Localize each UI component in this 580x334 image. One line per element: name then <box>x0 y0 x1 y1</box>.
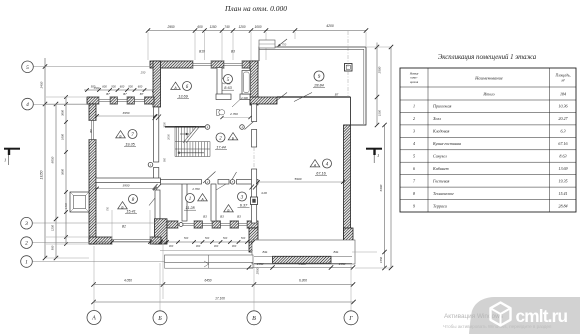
room 5 sanuzel label <box>224 75 233 84</box>
svg-text:500: 500 <box>128 85 133 89</box>
svg-text:2: 2 <box>413 116 415 121</box>
svg-text:4200: 4200 <box>326 24 334 28</box>
svg-text:13150: 13150 <box>40 170 44 179</box>
svg-text:67.16: 67.16 <box>558 141 568 146</box>
svg-text:13.69: 13.69 <box>558 166 567 171</box>
svg-text:1500: 1500 <box>94 86 100 90</box>
svg-text:500: 500 <box>205 236 210 240</box>
terrace door leaf <box>276 93 287 102</box>
top dimension chain <box>148 30 366 32</box>
svg-text:1600: 1600 <box>61 134 65 140</box>
svg-text:600: 600 <box>138 85 143 89</box>
window B2 <box>112 237 150 244</box>
svg-text:2: 2 <box>25 241 28 247</box>
toilet in sanuzel <box>227 78 230 85</box>
svg-text:В: В <box>252 316 256 322</box>
partition: hall west double line <box>154 107 159 162</box>
window B10 in north wall <box>193 61 211 68</box>
svg-text:4: 4 <box>26 101 29 108</box>
window B3 in north wall <box>224 61 242 68</box>
svg-text:20.27: 20.27 <box>558 116 568 121</box>
svg-text:500: 500 <box>111 85 116 89</box>
porch steps <box>165 255 254 262</box>
bay window sill wall <box>273 256 332 263</box>
wall: east of sanuzel (main block east) <box>250 61 258 105</box>
hall internal dim <box>222 117 250 119</box>
svg-text:67.16: 67.16 <box>316 172 326 176</box>
svg-text:1500: 1500 <box>378 109 382 116</box>
wall: room4 east <box>344 125 351 252</box>
door spacing chain <box>95 241 253 243</box>
right chain terrace <box>376 43 378 126</box>
svg-text:1: 1 <box>377 153 379 158</box>
svg-text:2550: 2550 <box>256 267 260 275</box>
svg-text:В3: В3 <box>203 215 207 219</box>
svg-text:щения: щения <box>410 80 419 84</box>
wall: room4 north <box>250 97 277 104</box>
wall: west outer <box>89 104 96 121</box>
partition: room1 / room3 <box>211 184 216 221</box>
room 6 kabinet label <box>171 82 181 89</box>
svg-text:3950: 3950 <box>123 183 130 187</box>
bay window outline <box>252 240 355 264</box>
wall: left wing north <box>87 97 99 104</box>
svg-text:2500: 2500 <box>378 66 382 74</box>
svg-text:1000: 1000 <box>254 25 261 29</box>
svg-text:Экспликация помещений 1 этажа: Экспликация помещений 1 этажа <box>438 54 537 61</box>
terrace sliding door leaf <box>294 93 312 102</box>
axis circle B <box>153 311 167 325</box>
section mark 1 right <box>366 148 382 150</box>
svg-text:Холл: Холл <box>432 116 441 121</box>
door leaves on hall partition <box>203 172 216 184</box>
axis circle 5 <box>22 61 34 73</box>
partition segment below door <box>154 168 159 183</box>
toilet near stairs <box>217 110 220 116</box>
right chain room4 <box>384 125 386 268</box>
axis circle 1 <box>21 256 33 268</box>
svg-text:Итого: Итого <box>482 92 494 97</box>
column axis dash line <box>347 31 349 97</box>
terrace column <box>345 64 353 72</box>
svg-text:6.3: 6.3 <box>560 129 565 134</box>
svg-text:1: 1 <box>4 158 6 163</box>
svg-text:3: 3 <box>24 221 28 227</box>
svg-text:3: 3 <box>413 129 415 134</box>
partition: room6 / sanuzel5 <box>217 68 222 96</box>
svg-text:1: 1 <box>189 197 192 202</box>
svg-text:Г: Г <box>348 316 353 322</box>
svg-text:250: 250 <box>140 71 146 75</box>
svg-text:В7: В7 <box>123 92 127 96</box>
svg-text:1150: 1150 <box>210 25 217 29</box>
axis circle G <box>344 311 358 325</box>
svg-text:900: 900 <box>164 157 167 162</box>
svg-text:В11: В11 <box>262 250 267 254</box>
svg-text:17.44: 17.44 <box>216 146 226 150</box>
break marks lower <box>153 184 158 190</box>
vent duct box <box>251 197 258 205</box>
svg-text:1200: 1200 <box>238 25 245 29</box>
svg-text:1550: 1550 <box>339 262 346 266</box>
svg-text:Кладовая: Кладовая <box>432 129 450 134</box>
svg-text:В7: В7 <box>140 92 144 96</box>
svg-text:900: 900 <box>196 244 201 248</box>
door leaf hall-kitchen <box>245 122 254 130</box>
svg-text:1550: 1550 <box>257 262 264 266</box>
svg-text:А: А <box>91 316 96 322</box>
terrace south edge <box>277 96 351 98</box>
svg-text:19.35: 19.35 <box>125 143 135 147</box>
svg-text:900: 900 <box>232 244 237 248</box>
svg-text:4: 4 <box>413 141 415 146</box>
axis circle 4 <box>22 98 34 110</box>
wall break marks <box>250 185 255 190</box>
door leaf room3 <box>216 184 226 190</box>
room4 internal dim <box>258 181 343 183</box>
svg-text:8: 8 <box>413 191 415 196</box>
bottom extension lines <box>93 246 95 311</box>
svg-text:6400: 6400 <box>379 184 383 191</box>
svg-text:Кухня-гостиная: Кухня-гостиная <box>432 141 461 146</box>
partition: hall / hallway <box>161 180 202 185</box>
svg-text:600: 600 <box>120 85 125 89</box>
room 4 kitchen-living label <box>310 160 320 167</box>
svg-text:Санузел: Санузел <box>433 154 447 159</box>
svg-text:19.35: 19.35 <box>558 178 567 183</box>
svg-text:План на отм. 0.000: План на отм. 0.000 <box>224 4 287 13</box>
svg-text:500: 500 <box>223 236 228 240</box>
svg-text:4.00: 4.00 <box>261 191 267 195</box>
partition: hall east <box>252 104 257 122</box>
room 7 gostevaya label <box>116 131 126 138</box>
door bubble hall <box>205 125 210 130</box>
svg-text:Кабинет: Кабинет <box>432 166 449 171</box>
room 2 hall label <box>216 133 225 142</box>
svg-text:2.300: 2.300 <box>240 96 248 100</box>
svg-text:В8: В8 <box>89 129 93 133</box>
left wing window dimension row <box>84 89 154 91</box>
stair diagonal break <box>183 127 197 144</box>
bay window chain <box>249 267 353 269</box>
svg-text:Наименование: Наименование <box>474 76 503 81</box>
svg-text:600: 600 <box>197 25 203 29</box>
svg-text:1550: 1550 <box>379 257 383 263</box>
svg-text:В10: В10 <box>199 50 205 54</box>
entrance column <box>179 223 183 227</box>
svg-text:4.050: 4.050 <box>124 279 132 283</box>
axis circle V <box>247 311 261 325</box>
svg-text:В2: В2 <box>122 225 126 229</box>
room 1 prihozhaya label <box>186 194 195 203</box>
fireplace niche <box>70 192 89 212</box>
svg-text:17.100: 17.100 <box>215 296 225 300</box>
svg-text:1: 1 <box>25 259 28 265</box>
svg-text:4.000: 4.000 <box>298 262 306 266</box>
svg-text:750: 750 <box>282 43 287 47</box>
door leaf into room8 <box>149 198 155 206</box>
svg-text:15.41: 15.41 <box>558 191 567 196</box>
partition: room8 / room1 <box>182 183 187 222</box>
svg-text:В7: В7 <box>106 92 110 96</box>
cmlt cube logo <box>491 303 511 326</box>
windows B7 in left wing north wall <box>99 97 110 104</box>
axis circle A <box>87 311 101 325</box>
svg-text:6.300: 6.300 <box>299 279 307 283</box>
svg-text:В3: В3 <box>231 50 235 54</box>
svg-text:2.700: 2.700 <box>229 112 238 116</box>
svg-text:28.84: 28.84 <box>313 84 324 88</box>
door bubble 3 <box>230 180 235 185</box>
terrace inner edge lines <box>363 49 365 124</box>
svg-text:Б: Б <box>157 316 162 322</box>
terrace outline <box>259 47 366 125</box>
wall: main block north <box>150 61 193 68</box>
svg-text:5600: 5600 <box>61 169 65 175</box>
room 3 kladovaya label <box>238 192 247 201</box>
chimney platform <box>259 40 275 48</box>
left overall chain <box>44 58 46 258</box>
svg-text:950: 950 <box>51 245 55 250</box>
svg-text:5900: 5900 <box>295 177 302 181</box>
svg-text:9: 9 <box>413 203 415 208</box>
svg-text:600: 600 <box>102 85 107 89</box>
door bubble 1 <box>148 162 153 167</box>
svg-text:1250: 1250 <box>51 225 55 231</box>
svg-text:184: 184 <box>560 92 566 97</box>
window B8 in west wall <box>89 121 96 140</box>
svg-text:Терраса: Терраса <box>433 203 447 208</box>
overall chain <box>94 301 354 303</box>
staircase <box>175 127 210 157</box>
right overall chain <box>390 47 392 268</box>
top extension lines <box>147 32 149 60</box>
axis circle 2 <box>21 237 33 249</box>
svg-text:Прихожая: Прихожая <box>432 104 452 109</box>
svg-text:2000: 2000 <box>167 134 171 141</box>
svg-text:2.700: 2.700 <box>191 187 200 191</box>
cmlt banner <box>469 297 580 334</box>
svg-text:2950: 2950 <box>166 25 174 29</box>
left chain 2 <box>55 104 57 258</box>
svg-text:3950: 3950 <box>123 111 130 115</box>
svg-text:5: 5 <box>413 154 415 159</box>
svg-text:6.37: 6.37 <box>240 204 248 208</box>
svg-text:500: 500 <box>241 236 246 240</box>
right extension lines <box>352 251 377 253</box>
wall: room4 south piers <box>249 228 258 252</box>
svg-text:1: 1 <box>413 104 415 109</box>
room4 northeast cap line <box>344 124 367 126</box>
break marks on hall west partition <box>153 115 158 121</box>
corner wall block <box>155 219 168 244</box>
room 9 terrace label <box>314 71 324 81</box>
svg-text:500: 500 <box>184 236 189 240</box>
svg-text:2450: 2450 <box>40 81 44 89</box>
svg-text:750: 750 <box>107 206 110 211</box>
svg-text:Техническое: Техническое <box>433 191 454 196</box>
axis circle 3 <box>21 217 33 229</box>
svg-text:3000: 3000 <box>164 122 167 128</box>
svg-text:Активация Windows: Активация Windows <box>444 313 503 320</box>
svg-text:740: 740 <box>224 25 230 29</box>
wall: left wing south <box>89 237 112 244</box>
svg-text:8050: 8050 <box>51 156 55 163</box>
svg-text:В3: В3 <box>237 215 241 219</box>
svg-text:8.63: 8.63 <box>224 86 232 90</box>
svg-text:Гостевая: Гостевая <box>432 178 450 183</box>
partition: sanuzel5 south <box>216 94 231 100</box>
room 8 tech label <box>129 195 138 204</box>
svg-text:В11: В11 <box>333 250 338 254</box>
svg-text:28.84: 28.84 <box>558 203 567 208</box>
svg-text:В7: В7 <box>335 92 339 96</box>
svg-text:900: 900 <box>214 244 219 248</box>
svg-text:6450: 6450 <box>204 279 211 283</box>
lower chain 2 <box>94 284 354 286</box>
room7 internal dim <box>97 115 155 117</box>
svg-text:15.41: 15.41 <box>126 210 136 214</box>
svg-text:3600: 3600 <box>61 110 65 116</box>
explication table frame <box>400 68 576 212</box>
door bubble 2 <box>205 180 210 185</box>
svg-text:cmlt.ru: cmlt.ru <box>516 306 568 326</box>
svg-text:В3: В3 <box>220 215 224 219</box>
stair arrow <box>178 152 204 154</box>
svg-text:11.28: 11.28 <box>185 206 195 210</box>
svg-text:13.69: 13.69 <box>178 95 188 99</box>
wall: west band of main block (hatched top) <box>153 61 161 107</box>
svg-text:5: 5 <box>26 65 29 71</box>
stair top landing edge <box>165 126 205 128</box>
door bubble 4 <box>240 125 245 130</box>
room8 internal dim <box>97 188 155 190</box>
room4 northeast corner line <box>350 97 352 125</box>
platform edge line <box>160 249 253 251</box>
section mark 1 left <box>4 148 20 150</box>
left extension lines <box>46 96 87 98</box>
window B2 extension lines <box>111 210 113 239</box>
partition: room7 / room8 <box>96 178 161 183</box>
bath tub <box>242 71 251 95</box>
svg-text:8.63: 8.63 <box>559 154 566 159</box>
axis lines from circles <box>34 66 151 68</box>
svg-text:900: 900 <box>169 244 174 248</box>
left chain 3 <box>65 97 67 244</box>
svg-text:10.36: 10.36 <box>558 104 568 109</box>
wall: hallway south with door piers <box>167 221 178 228</box>
roof drain arrow <box>278 39 288 47</box>
